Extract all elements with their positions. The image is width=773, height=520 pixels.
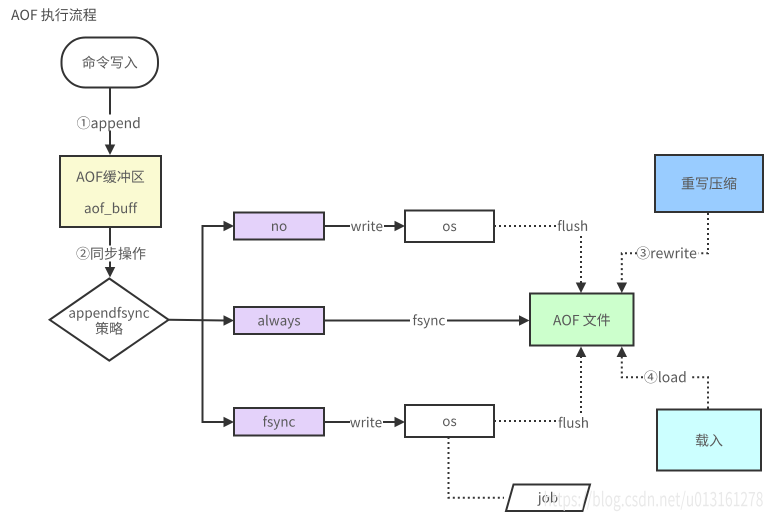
dotted load path [617, 347, 708, 409]
os box top [405, 211, 494, 243]
option box no (purple) [234, 213, 324, 240]
label write (bottom) [350, 417, 381, 428]
option box fsync (purple) [234, 408, 324, 436]
label ①append [77, 115, 141, 132]
wire always to AOF fsync [324, 315, 530, 326]
start node 命令写入 (rounded) [62, 38, 159, 88]
wire fsyncbox to os write [324, 417, 405, 428]
dotted flush top [494, 226, 586, 293]
dotted flush bottom [494, 347, 586, 422]
title AOF 执行流程 [11, 8, 96, 21]
wire branch to fsync [203, 320, 235, 427]
wire diamond to always [169, 315, 234, 326]
label ②同步操作 [76, 246, 146, 262]
os box bottom [405, 405, 494, 437]
process AOF缓冲区 aof_buff (yellow) [60, 156, 161, 227]
wire append arrow [105, 88, 116, 155]
dotted os to job [449, 437, 505, 498]
label flush (bottom) [559, 417, 588, 428]
option box always (purple) [234, 307, 324, 334]
label ④load [644, 370, 685, 383]
label flush (top) [558, 220, 587, 231]
wire no to os write [324, 221, 405, 232]
重写压缩 box (blue) [655, 155, 763, 212]
label write (top) [351, 221, 382, 232]
decision appendfsync 策略 (diamond) [50, 279, 169, 361]
AOF 文件 box (green) [530, 294, 634, 346]
wire branch vertical [203, 221, 235, 320]
wire sync arrow [105, 227, 116, 278]
dotted rewrite path [617, 213, 708, 293]
watermark [545, 491, 763, 511]
label fsync (edge) [413, 314, 445, 328]
job parallelogram [506, 485, 590, 512]
label ③rewrite [637, 246, 697, 259]
载入 box (cyan) [657, 410, 761, 471]
